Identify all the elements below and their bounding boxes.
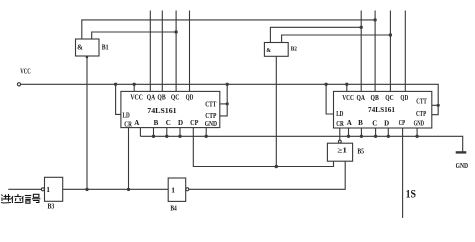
- junction U1 CTT: [226, 102, 229, 105]
- junction rail / U1 LD: [114, 83, 117, 86]
- svg-text:VCC: VCC: [130, 93, 143, 102]
- IC U1 74LS161: [121, 91, 220, 128]
- wire: grounded data bus: [140, 136, 462, 151]
- svg-text:CP: CP: [190, 118, 199, 127]
- wire: U2 C stub: [375, 128, 377, 136]
- junction at U2 QB / B1 input 1: [373, 18, 376, 21]
- wire: U1 B stub: [153, 128, 155, 137]
- svg-text:QA: QA: [147, 93, 156, 102]
- svg-text:1S: 1S: [406, 188, 416, 200]
- svg-text:B5: B5: [357, 149, 364, 156]
- svg-text:CTT: CTT: [205, 99, 216, 108]
- svg-text:1: 1: [46, 185, 50, 194]
- wire: U2 VCC pin stub: [346, 84, 348, 91]
- junction bus U2 B: [360, 135, 363, 138]
- wire: U2 CTT stub: [432, 104, 438, 106]
- wire: U1 QA output up: [149, 11, 151, 92]
- svg-text:CTT: CTT: [416, 97, 427, 106]
- wire: U1 CP line down and right into B5: [193, 128, 333, 167]
- wire: U1 QC output up: [175, 11, 177, 92]
- svg-text:A: A: [134, 119, 139, 127]
- label 进 (carry signal text char 1): [1, 194, 11, 203]
- svg-text:LD: LD: [336, 109, 344, 118]
- junction bus U2 GND: [415, 135, 418, 138]
- svg-text:CTP: CTP: [416, 109, 426, 118]
- wire: U2 A stub: [348, 128, 350, 136]
- svg-text:QB: QB: [157, 93, 165, 102]
- inverter B3: [41, 177, 62, 201]
- junction rail / U1 CTT vertical: [226, 83, 229, 86]
- wire: B1 input 2 from U1 QC: [92, 32, 176, 39]
- wire: U1 CTT stub: [220, 103, 227, 105]
- wire: B2 input 2 from U2 QC: [282, 35, 391, 43]
- wire: B2 input 1 from U2 QA: [270, 27, 361, 42]
- junction B1 output on carry line: [85, 188, 88, 191]
- wire: U1 A stub into data bus: [139, 128, 141, 137]
- junction at U1 QC / B1 input 2: [174, 30, 177, 33]
- svg-text:D: D: [384, 120, 389, 128]
- svg-text:C: C: [166, 119, 171, 127]
- svg-text:QC: QC: [385, 93, 393, 102]
- wire: U2 QA output up: [360, 11, 362, 92]
- VCC terminal: [17, 83, 20, 86]
- svg-text:D: D: [178, 119, 183, 127]
- wire: B3 output carry line to B4: [63, 188, 169, 190]
- svg-text:QD: QD: [400, 93, 408, 102]
- svg-text:B1: B1: [102, 44, 109, 52]
- junction U2 CTT: [437, 104, 440, 107]
- wire: U1 QB output up: [161, 11, 163, 92]
- svg-text:CP: CP: [399, 118, 406, 127]
- wire: U2 QC output up: [389, 11, 391, 92]
- svg-text:B3: B3: [48, 203, 55, 211]
- svg-text:≥1: ≥1: [337, 146, 347, 154]
- wire: U2 GND stub: [416, 128, 418, 136]
- junction rail / U2 VCC: [345, 83, 348, 86]
- junction bus U2 A: [347, 135, 350, 138]
- wire: carry signal input: [8, 188, 41, 190]
- IC U2 74LS161: [334, 91, 432, 128]
- wire: B4 output to B5: [189, 161, 345, 189]
- label 信 (carry signal text char 3): [22, 196, 32, 204]
- junction bus U1 C: [165, 135, 168, 138]
- junction bus U1 GND: [205, 135, 208, 138]
- wire: U2 CR to B5 bubble: [339, 128, 341, 140]
- junction B2 output on CP line: [275, 165, 278, 168]
- wire: B1 output down to carry line: [86, 56, 88, 189]
- wire: VCC rail to U2 CTT/CTP bracket: [21, 84, 439, 114]
- junction rail / U1 VCC: [133, 83, 136, 86]
- junction bus U2 C: [374, 135, 377, 138]
- wire: U1 CR down to carry line: [128, 128, 130, 190]
- wire: U2 B stub: [360, 128, 362, 136]
- svg-text:A: A: [347, 119, 352, 127]
- svg-text:1: 1: [171, 186, 175, 195]
- wire: U2 LD to VCC rail: [326, 84, 333, 114]
- ground symbol: [456, 151, 467, 153]
- svg-text:VCC: VCC: [20, 67, 31, 76]
- wire: U2 QD output up: [404, 11, 406, 92]
- junction bus U1 B: [152, 135, 155, 138]
- junction bus U2 D: [387, 135, 390, 138]
- junction rail / U2 LD: [324, 83, 327, 86]
- svg-text:74LS161: 74LS161: [368, 105, 395, 114]
- svg-text:B2: B2: [291, 46, 298, 53]
- svg-text:QA: QA: [357, 93, 366, 102]
- svg-text:VCC: VCC: [342, 93, 354, 102]
- wire: U1 LD to VCC rail: [116, 84, 121, 114]
- svg-text:QC: QC: [171, 93, 179, 102]
- svg-text:CR: CR: [336, 119, 344, 128]
- svg-text:QD: QD: [186, 93, 194, 102]
- label 位 (carry signal text char 2): [11, 194, 22, 203]
- inverter B4: [168, 178, 189, 201]
- wire: U1 C stub: [166, 128, 168, 137]
- svg-text:GND: GND: [205, 120, 217, 128]
- svg-text:CR: CR: [124, 120, 132, 129]
- svg-text:&: &: [77, 44, 83, 52]
- wire: U2 CP clock input 1S: [402, 128, 404, 218]
- svg-text:GND: GND: [456, 162, 469, 170]
- wire: U2 D stub: [387, 128, 389, 136]
- svg-text:74LS161: 74LS161: [147, 106, 177, 115]
- AND gate B2: [264, 43, 288, 57]
- wire: U1 CTT/CTP bracket to VCC rail: [220, 84, 227, 116]
- label 号 (carry signal text char 4): [32, 194, 41, 202]
- svg-text:B: B: [154, 119, 159, 127]
- svg-text:QB: QB: [371, 93, 379, 102]
- wire: U1 QD output up: [189, 11, 191, 92]
- wire: U2 QB output up: [374, 11, 376, 92]
- svg-text:B4: B4: [170, 205, 177, 213]
- svg-text:B: B: [358, 119, 363, 127]
- svg-text:GND: GND: [414, 120, 424, 128]
- junction U1 CR on carry line: [127, 188, 130, 191]
- wire: U1 D stub: [179, 128, 181, 137]
- svg-text:LD: LD: [123, 111, 131, 120]
- svg-text:C: C: [372, 120, 377, 128]
- OR gate B5: [327, 140, 352, 161]
- AND gate B1: [76, 39, 100, 58]
- junction bus U1 D: [178, 135, 181, 138]
- wire: B1 input 1 from U2 QB: [82, 20, 375, 39]
- wire: U1 GND stub: [205, 128, 207, 137]
- junction at U2 QC / B2 input 2: [389, 33, 392, 36]
- wire: U1 VCC pin stub: [133, 84, 135, 91]
- svg-text:&: &: [266, 48, 271, 54]
- wire: B2 output down to CP line: [275, 56, 277, 166]
- junction at U2 QA / B2 input 1: [360, 26, 363, 29]
